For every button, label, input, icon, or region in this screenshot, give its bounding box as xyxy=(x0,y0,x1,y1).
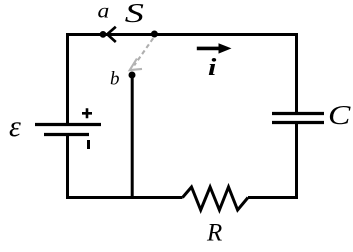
node b dot xyxy=(129,72,136,79)
switch S node a dot xyxy=(100,31,107,38)
wire top xyxy=(66,33,298,36)
svg-text:a: a xyxy=(98,0,110,22)
svg-text:i: i xyxy=(208,54,217,81)
wire bottom left xyxy=(66,196,183,199)
wire left lower xyxy=(66,135,69,200)
svg-text:b: b xyxy=(110,69,120,90)
wire right upper xyxy=(295,33,298,114)
current arrow xyxy=(197,43,232,53)
wire left upper xyxy=(66,33,69,125)
resistor R zigzag xyxy=(183,187,249,210)
capacitor C xyxy=(272,114,324,123)
svg-text:R: R xyxy=(206,220,222,247)
svg-text:C: C xyxy=(328,100,351,130)
wire bottom right xyxy=(248,196,298,199)
switch pivot dot xyxy=(151,31,158,38)
svg-text:S: S xyxy=(125,0,145,29)
battery plus sign xyxy=(82,108,92,118)
wire from node b down to bottom wire xyxy=(131,75,134,199)
svg-text:ε: ε xyxy=(9,110,21,143)
gray arrowhead at b end xyxy=(130,59,142,71)
battery EMF source xyxy=(35,125,101,135)
dashed throw arc from pivot toward b xyxy=(134,38,153,65)
switch arm arrowhead at a xyxy=(107,27,116,42)
wire right lower xyxy=(295,123,298,200)
battery minus sign xyxy=(87,140,90,149)
